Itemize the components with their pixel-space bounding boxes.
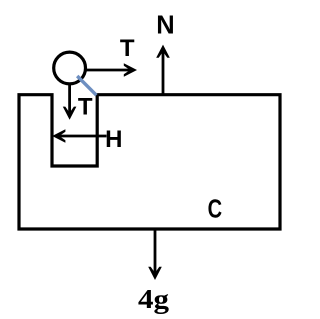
svg-text:T: T [78,93,93,120]
normal force arrow N [156,45,170,94]
svg-text:T: T [120,35,135,62]
block C outline with slot [19,95,280,229]
axle blue line [77,76,96,95]
pulley circle [54,52,86,84]
svg-text:H: H [105,126,122,153]
tension arrow T right [86,63,138,77]
svg-text:4g: 4g [138,284,170,314]
horizontal force arrow H [52,129,106,143]
tension arrow T down [63,84,77,120]
svg-text:N: N [156,12,174,40]
svg-text:C: C [208,196,223,224]
weight arrow 4g [148,231,162,281]
